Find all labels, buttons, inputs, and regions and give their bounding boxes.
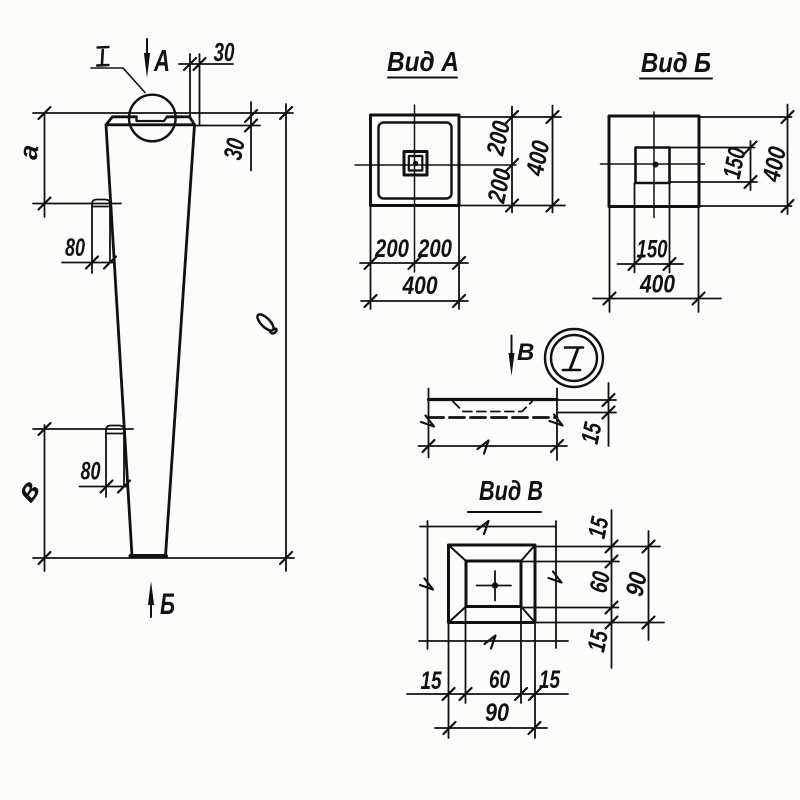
svg-text:Б: Б [160, 588, 175, 621]
svg-text:30: 30 [214, 37, 235, 67]
svg-text:200: 200 [481, 119, 516, 159]
svg-text:400: 400 [402, 272, 438, 300]
svg-text:400: 400 [521, 138, 556, 179]
svg-text:В: В [517, 339, 534, 366]
svg-text:Вид А: Вид А [387, 46, 459, 77]
svg-text:80: 80 [81, 458, 101, 486]
svg-text:150: 150 [718, 145, 752, 181]
svg-text:15: 15 [539, 666, 561, 694]
svg-text:Вид Б: Вид Б [641, 47, 711, 78]
svg-text:90: 90 [485, 699, 509, 727]
svg-text:а: а [13, 143, 45, 162]
svg-text:в: в [10, 474, 47, 508]
svg-text:15: 15 [583, 514, 615, 541]
svg-text:30: 30 [217, 135, 251, 162]
svg-text:А: А [153, 43, 170, 78]
svg-text:Вид В: Вид В [479, 475, 543, 506]
svg-text:150: 150 [637, 236, 668, 264]
svg-text:15: 15 [421, 667, 443, 695]
svg-text:60: 60 [489, 666, 510, 694]
svg-text:400: 400 [639, 271, 675, 299]
svg-text:15: 15 [582, 627, 614, 654]
svg-text:200: 200 [417, 235, 452, 263]
svg-text:15: 15 [576, 419, 608, 446]
svg-text:80: 80 [65, 234, 85, 262]
svg-text:200: 200 [374, 235, 409, 263]
